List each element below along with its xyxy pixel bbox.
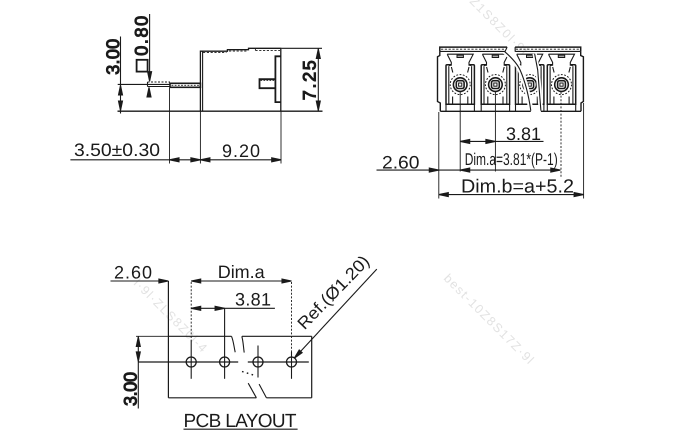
svg-text:Dim.a=3.81*(P-1): Dim.a=3.81*(P-1) — [465, 150, 558, 169]
dimension 2.60 (front) — [377, 169, 561, 171]
body left inner line — [202, 51, 204, 111]
dimension 7.25 — [282, 47, 323, 49]
break dots middle — [242, 372, 254, 376]
hole center line left part — [138, 361, 238, 363]
dimension Dim.a=3.81*(P-1) — [460, 168, 470, 172]
clamp tab — [457, 55, 463, 57]
dimension Dim.b=a+5.2 — [439, 194, 584, 196]
hole 1 vertical solid — [190, 340, 192, 379]
break tick top 1 — [232, 336, 236, 352]
hole 2 — [220, 357, 230, 367]
terminal cell 3 — [516, 54, 544, 111]
hole 4 — [287, 357, 297, 367]
break tick bottom 1 — [248, 383, 256, 398]
hole 1 — [186, 357, 196, 367]
svg-text:Dim.b=a+5.2: Dim.b=a+5.2 — [461, 176, 574, 197]
svg-text:9.20: 9.20 — [222, 141, 260, 161]
hole 2 vertical — [224, 308, 226, 379]
dimension Dim.a (pcb) — [191, 280, 291, 282]
svg-text:3.00: 3.00 — [120, 372, 140, 406]
screw center hole — [459, 83, 462, 86]
hole 3 — [253, 357, 263, 367]
hole 4 vertical dotted — [291, 282, 293, 352]
top band left part — [440, 47, 507, 51]
break tick bottom 2 — [259, 384, 266, 398]
body top dashed textures — [203, 52, 227, 54]
svg-text:2.60: 2.60 — [382, 152, 420, 172]
cavity inner walls — [448, 66, 450, 104]
svg-text:3.50±0.30: 3.50±0.30 — [74, 140, 160, 160]
body right edge — [581, 51, 584, 111]
dimension 3.81 (front) — [460, 140, 543, 142]
body bottom edge right part — [541, 110, 581, 112]
top band right part — [515, 47, 581, 51]
hole center line right part — [248, 361, 309, 363]
svg-text:Ref.(Ø1.20): Ref.(Ø1.20) — [294, 252, 374, 334]
cavity outer — [446, 65, 474, 105]
terminal cell 2 — [481, 54, 509, 111]
screw2 extension — [494, 92, 496, 172]
break tick top 2 — [242, 336, 244, 352]
svg-text:Dim.a: Dim.a — [218, 262, 266, 282]
throat taper — [451, 67, 469, 73]
body bottom line — [118, 110, 323, 112]
svg-text:3.81: 3.81 — [506, 124, 541, 144]
screw ring — [453, 78, 467, 92]
leader Ref.(Ø1.20) — [296, 269, 377, 357]
pin thin section — [148, 81, 171, 83]
pcb outline left edge — [167, 281, 169, 398]
dimension 3.00 (pcb) — [136, 335, 169, 337]
screw pocket walls — [453, 97, 468, 105]
svg-text:3.81: 3.81 — [235, 290, 271, 310]
body left extension — [438, 112, 440, 199]
screw outer dashed circle — [450, 75, 470, 95]
break line A — [505, 47, 531, 111]
dimension 3.00 (side) — [120, 37, 122, 114]
screw head square — [456, 81, 464, 89]
T-slot vertical bar — [275, 56, 280, 102]
break line B — [535, 54, 541, 111]
hole 3 vertical — [257, 346, 259, 378]
terminal cell 4 — [547, 54, 575, 111]
T-slot horizontal bar — [260, 79, 276, 88]
title underline — [184, 428, 298, 430]
dimension 3.81 (pcb) — [191, 307, 275, 309]
body outline — [200, 48, 280, 111]
break line A halo — [505, 47, 531, 111]
svg-text:3.00: 3.00 — [103, 39, 123, 75]
pcb outline top left part — [168, 335, 231, 337]
dimension 2.60 (pcb) — [111, 280, 169, 282]
hole 1 vertical dotted — [190, 282, 192, 340]
pcb outline top right part — [242, 335, 312, 337]
body right extension — [583, 103, 585, 199]
screw4 extension dotted — [560, 92, 562, 177]
pcb outline right edge — [311, 336, 313, 398]
cell web to body bottom — [445, 104, 447, 111]
body bottom edge left part — [440, 110, 531, 112]
terminal cell 1 — [446, 54, 474, 111]
svg-text:2.60: 2.60 — [114, 262, 152, 282]
break line B halo — [535, 54, 541, 111]
svg-text:7.25: 7.25 — [300, 60, 320, 100]
funnel — [447, 54, 473, 65]
svg-text:0.80: 0.80 — [132, 16, 152, 56]
pin thick section — [170, 83, 200, 87]
square symbol — [137, 60, 148, 72]
screw1 extension — [459, 92, 461, 172]
body left edge — [438, 51, 441, 111]
dimension 0.80 — [149, 14, 151, 79]
pcb outline bottom left part — [168, 397, 256, 399]
pcb outline bottom right part — [266, 397, 311, 399]
hole 4 vertical solid — [291, 352, 293, 379]
bottom dimension group: 3.50±0.30 and 9.20 — [169, 88, 171, 164]
